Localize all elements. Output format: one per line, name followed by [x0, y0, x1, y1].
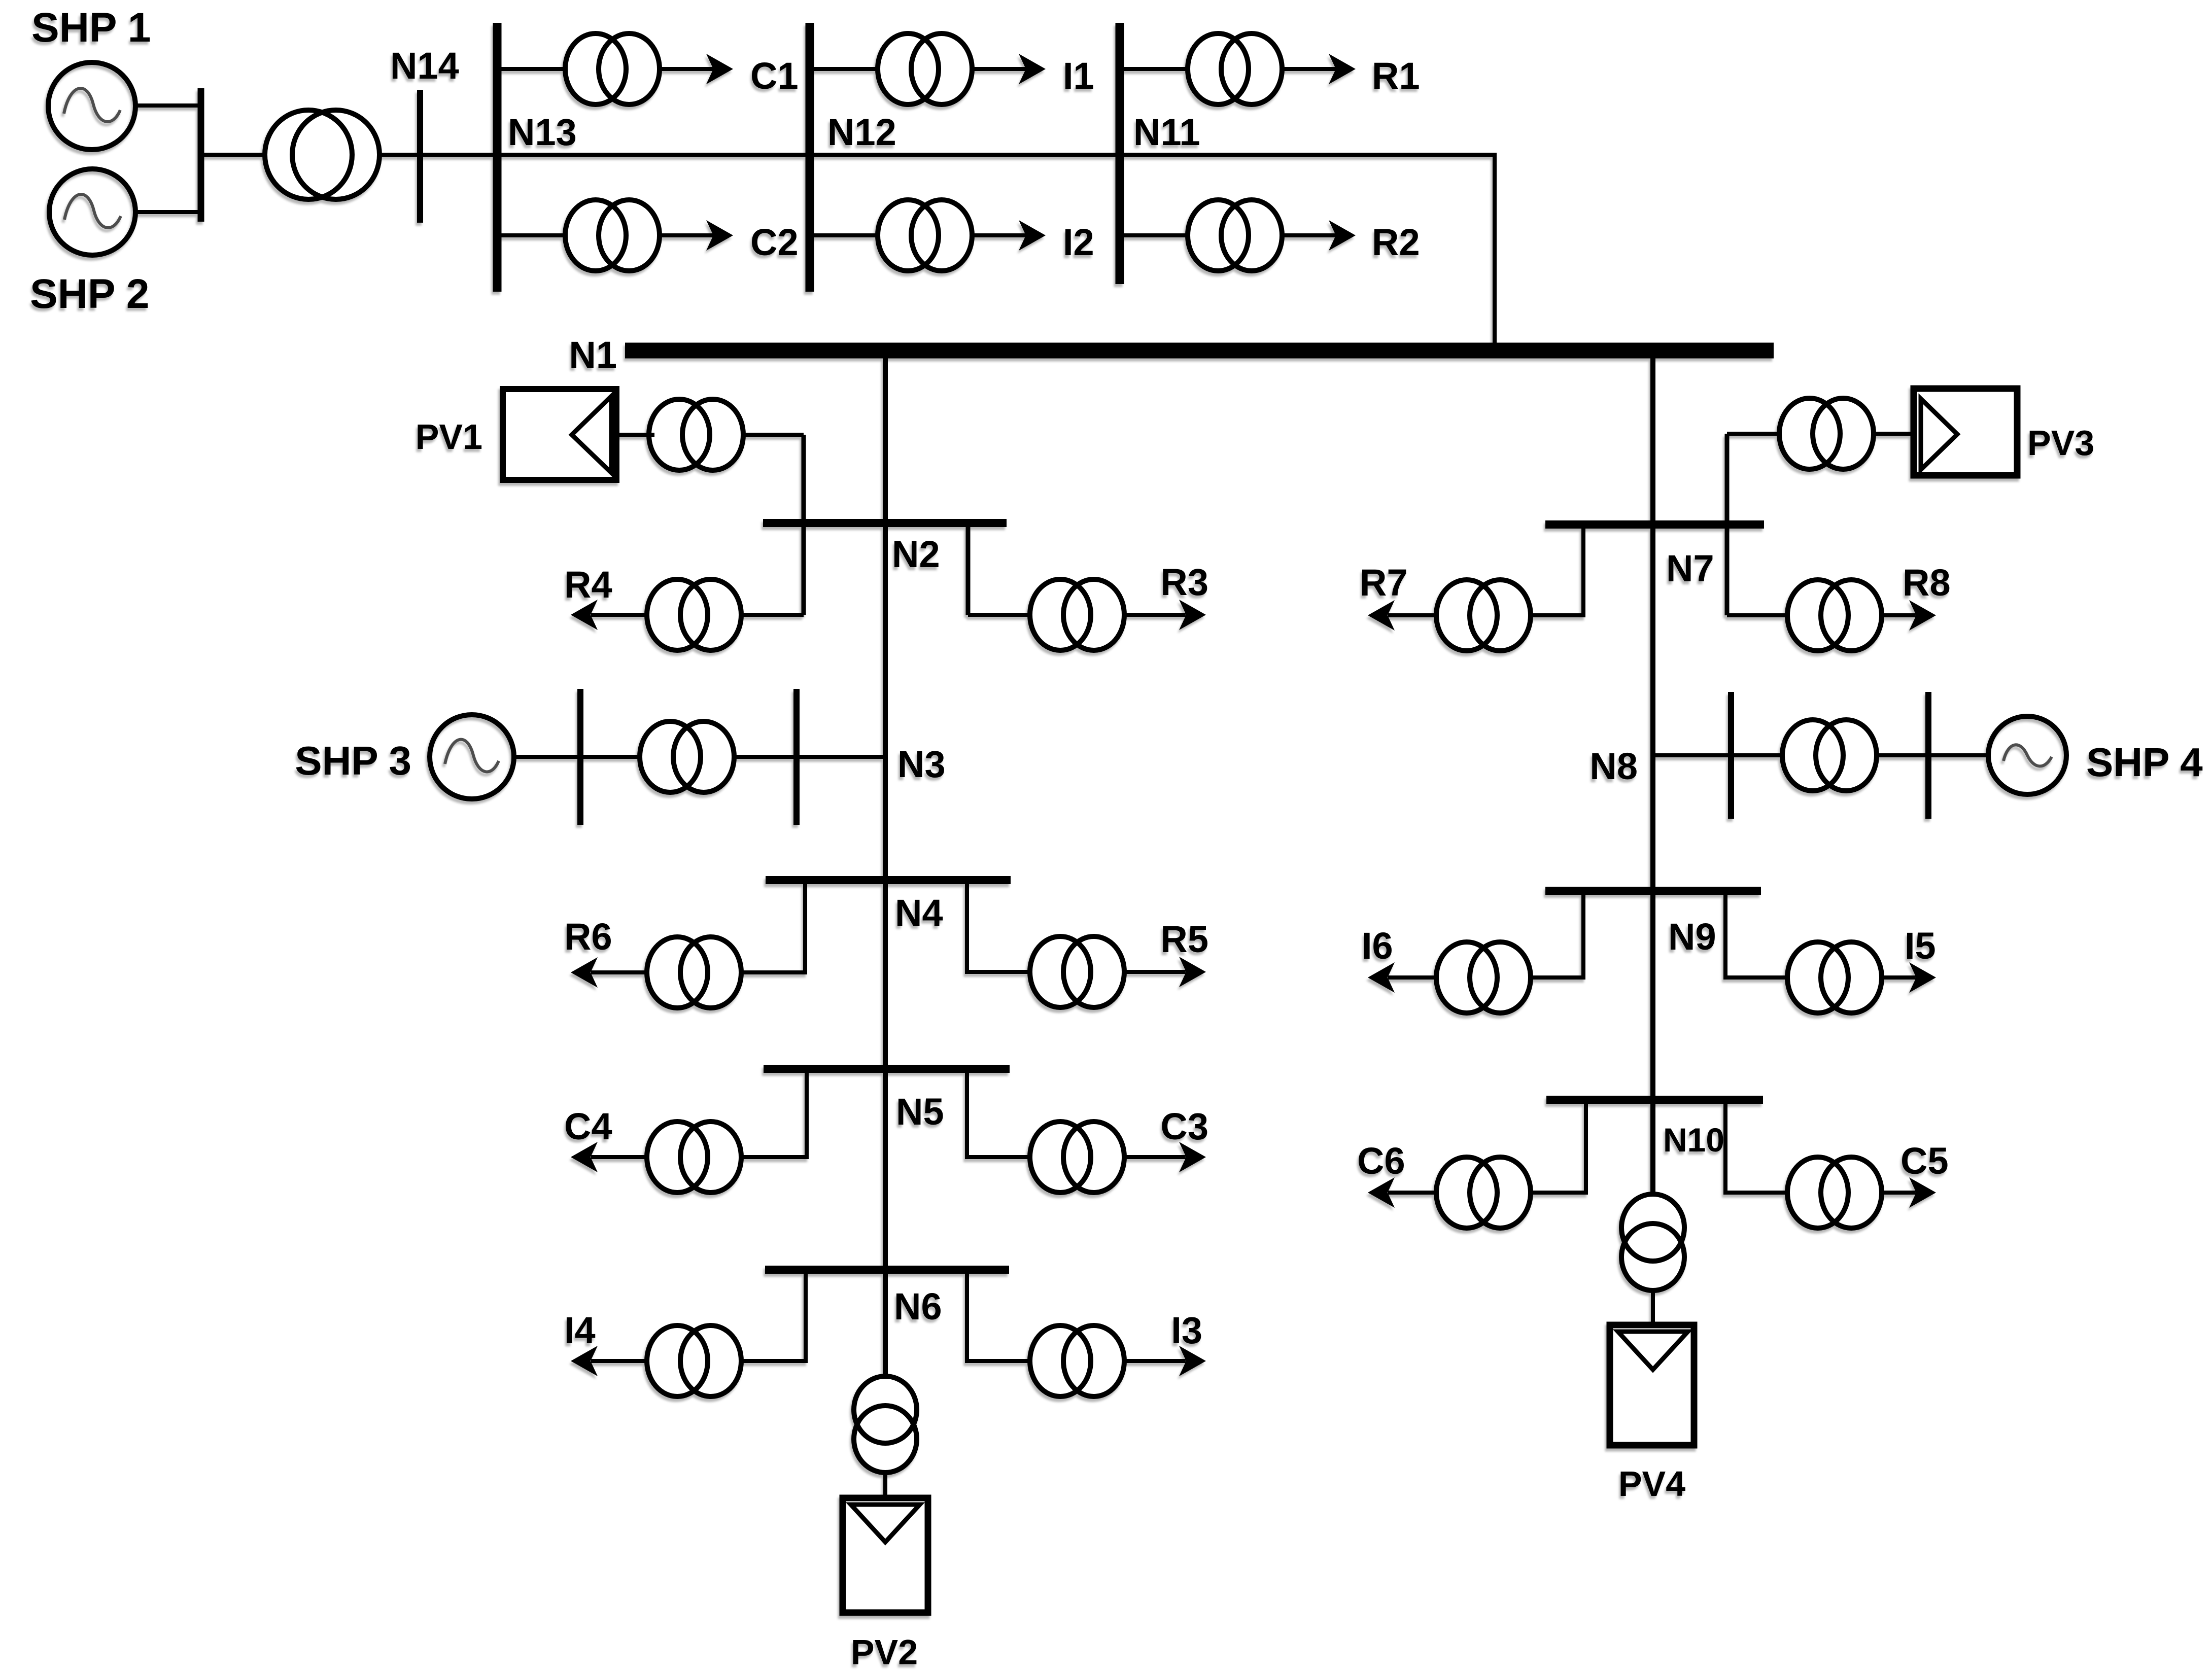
wire generator bus to main transformer: [201, 153, 269, 157]
SHP3 tick 1: [577, 689, 583, 825]
wire right feeder (N1 to N10 and PV4): [1650, 355, 1655, 1198]
transformer of load C5: [1787, 1157, 1882, 1228]
svg-text:C6: C6: [1357, 1140, 1405, 1182]
svg-text:PV1: PV1: [416, 417, 482, 457]
svg-text:R5: R5: [1160, 918, 1208, 960]
svg-text:R6: R6: [564, 916, 612, 958]
PV unit PV4: [1610, 1325, 1694, 1445]
svg-text:SHP 1: SHP 1: [31, 5, 151, 51]
svg-text:R7: R7: [1360, 562, 1408, 604]
wire PV3/R8 stub through bus N7: [1725, 434, 1730, 615]
wire arrow shaft C6: [1388, 1191, 1439, 1195]
wire C3 stub off bus N5: [967, 1069, 1035, 1157]
arrow to C2: [706, 220, 733, 251]
wire N11 to load R2: [1120, 233, 1338, 237]
svg-text:C5: C5: [1900, 1140, 1949, 1182]
arrow to I5: [1909, 962, 1936, 993]
arrow to C4: [571, 1142, 598, 1172]
bus N6: [765, 1266, 1009, 1274]
wire arrow shaft R3: [1122, 613, 1186, 617]
arrow to R2: [1329, 220, 1356, 251]
svg-text:R1: R1: [1372, 55, 1420, 97]
transformer of load C3: [1030, 1122, 1124, 1193]
wire arrow shaft R4: [591, 613, 649, 617]
wire stub to PV3 transformer: [1727, 432, 1786, 436]
wire PV2 transformer to panel: [883, 1471, 887, 1499]
svg-text:N11: N11: [1133, 111, 1200, 153]
wire SHP2 to generator bus: [135, 210, 201, 214]
wire arrow shaft I4: [591, 1359, 649, 1363]
wire arrow shaft C3: [1122, 1155, 1186, 1159]
PV unit PV2: [843, 1498, 928, 1613]
wire PV3 transformer to panel: [1871, 432, 1914, 436]
arrow to C3: [1179, 1142, 1206, 1172]
transformer of load R5: [1030, 936, 1124, 1007]
wire PV1 transformer to stub: [741, 433, 804, 437]
svg-text:N14: N14: [390, 45, 459, 87]
bus N1 (main thick busbar): [625, 343, 1774, 359]
bus N7: [1545, 520, 1764, 529]
transformer T-main (grid transformer): [265, 110, 379, 199]
transformer of load R6: [647, 937, 741, 1008]
arrow to C6: [1368, 1177, 1395, 1208]
wire arrow shaft I6: [1388, 975, 1439, 980]
transformer of load C4: [647, 1122, 741, 1193]
wire I6 stub off bus N9: [1528, 891, 1583, 977]
transformer of load R2: [1188, 200, 1282, 271]
wire I5 stub off bus N9: [1725, 891, 1792, 977]
bus N10: [1546, 1096, 1763, 1104]
wire node N8 to SHP4: [1653, 753, 1988, 757]
wire C6 stub off bus N10: [1528, 1100, 1586, 1193]
wire arrow shaft I3: [1122, 1359, 1186, 1363]
svg-text:R4: R4: [564, 564, 612, 606]
svg-text:PV4: PV4: [1618, 1464, 1685, 1504]
svg-text:N2: N2: [892, 533, 940, 575]
wire arrow shaft R8: [1879, 613, 1916, 617]
bus N12: [806, 23, 814, 292]
transformer of load I6: [1436, 942, 1531, 1013]
wire SHP3 to node N3: [514, 755, 885, 759]
arrow to I3: [1179, 1346, 1206, 1376]
arrow to R6: [571, 957, 598, 988]
transformer of load I4: [647, 1325, 741, 1396]
wire arrow shaft I5: [1879, 975, 1916, 980]
svg-text:I5: I5: [1905, 925, 1936, 967]
bus N5: [764, 1065, 1010, 1073]
arrow to R8: [1909, 600, 1936, 631]
wire R5 stub off bus N4: [967, 880, 1035, 972]
wire N13 to load C2: [497, 233, 715, 237]
svg-text:C2: C2: [750, 221, 799, 263]
wire R6 stub off bus N4: [739, 880, 805, 972]
wire N12 to load I2: [810, 233, 1028, 237]
wire R8 stub to transformer: [1727, 613, 1792, 617]
svg-text:R3: R3: [1160, 561, 1208, 603]
svg-text:R8: R8: [1903, 562, 1951, 604]
wire PV4 transformer to panel: [1651, 1289, 1655, 1327]
arrow to R5: [1179, 957, 1206, 987]
generator SHP4: [1988, 716, 2066, 794]
wire bus N13 to N12 to N11 and down to bus N1: [497, 155, 1495, 343]
wire I3 stub off bus N6: [967, 1270, 1035, 1361]
svg-text:C4: C4: [564, 1105, 612, 1147]
transformer of load R4: [647, 579, 741, 650]
transformer of load C1: [565, 33, 660, 104]
wire arrow shaft R6: [591, 970, 649, 974]
bus N9: [1545, 887, 1761, 895]
arrow to R1: [1329, 54, 1356, 84]
svg-text:N8: N8: [1589, 745, 1638, 787]
svg-text:I6: I6: [1362, 925, 1393, 967]
transformer of load R7: [1436, 580, 1531, 651]
wire R4 transformer to stub: [739, 613, 804, 617]
svg-text:PV3: PV3: [2027, 423, 2094, 463]
bus N4: [766, 876, 1011, 884]
SHP4 tick 2: [1925, 692, 1931, 819]
svg-text:N6: N6: [894, 1285, 942, 1328]
svg-text:I4: I4: [564, 1309, 596, 1351]
node N14 tick: [417, 90, 423, 223]
wire C5 stub off bus N10: [1725, 1100, 1792, 1193]
svg-text:N5: N5: [896, 1091, 944, 1133]
generator SHP1: [48, 62, 135, 150]
arrow to R7: [1368, 600, 1395, 631]
svg-text:N12: N12: [827, 111, 896, 153]
wire PV1 panel to transformer: [616, 433, 654, 437]
bus N2: [763, 519, 1007, 527]
transformer of load R1: [1188, 33, 1282, 104]
svg-text:N9: N9: [1668, 916, 1716, 958]
wire left feeder (N1 to N6 and PV2): [883, 355, 888, 1378]
wire R3 stub to transformer: [968, 613, 1035, 617]
wire PV1/R4 stub through bus N2: [802, 435, 806, 615]
wire arrow shaft R5: [1122, 970, 1186, 974]
wire main transformer to bus N13: [379, 153, 497, 157]
svg-text:I3: I3: [1171, 1309, 1202, 1351]
transformer of PV1: [649, 399, 743, 470]
svg-text:SHP 4: SHP 4: [2086, 740, 2203, 785]
transformer of PV2: [854, 1376, 917, 1473]
bus N11: [1116, 23, 1124, 284]
wire N13 to load C1: [497, 67, 715, 71]
svg-text:I1: I1: [1063, 55, 1094, 97]
arrow to R4: [571, 600, 598, 630]
wire arrow shaft C4: [591, 1155, 649, 1159]
transformer of load R8: [1787, 580, 1882, 651]
wire R3 stub off bus N2: [966, 523, 971, 615]
SHP3 tick 2: [793, 689, 800, 825]
wire arrow shaft C5: [1879, 1191, 1916, 1195]
svg-text:I2: I2: [1063, 221, 1094, 263]
generator SHP3: [430, 715, 514, 799]
svg-text:N13: N13: [508, 111, 577, 153]
wire N11 to load R1: [1120, 67, 1338, 71]
wire I4 stub off bus N6: [739, 1270, 806, 1361]
wire R7 stub off bus N7: [1528, 525, 1583, 615]
transformer of load I5: [1787, 942, 1882, 1013]
svg-text:C3: C3: [1160, 1105, 1208, 1147]
transformer of SHP4: [1782, 720, 1877, 791]
generator SHP2: [49, 169, 135, 255]
arrow to I4: [571, 1346, 598, 1376]
PV unit PV1: [503, 389, 616, 480]
svg-text:N4: N4: [895, 892, 943, 934]
arrow to C1: [706, 54, 733, 84]
arrow to C5: [1909, 1177, 1936, 1208]
wire SHP1 to generator bus: [135, 103, 201, 108]
svg-text:C1: C1: [750, 55, 799, 97]
bus N13: [493, 23, 502, 292]
transformer of load R3: [1030, 579, 1124, 650]
transformer of load I3: [1030, 1325, 1124, 1396]
transformer of load I1: [878, 33, 972, 104]
transformer of PV3: [1779, 398, 1874, 469]
svg-text:N10: N10: [1663, 1121, 1724, 1159]
arrow to I6: [1368, 962, 1395, 993]
svg-text:PV2: PV2: [851, 1632, 918, 1672]
arrow to I2: [1019, 220, 1046, 251]
transformer of load C6: [1436, 1157, 1531, 1228]
wire N12 to load I1: [810, 67, 1028, 71]
transformer of load C2: [565, 200, 660, 271]
transformer of SHP3: [640, 721, 734, 792]
svg-text:N7: N7: [1666, 547, 1714, 589]
generator bus bar: [198, 88, 204, 222]
SHP4 tick 1: [1728, 692, 1734, 819]
svg-text:SHP 2: SHP 2: [30, 271, 150, 317]
svg-text:R2: R2: [1372, 221, 1420, 263]
svg-text:N1: N1: [569, 334, 617, 376]
wire arrow shaft R7: [1388, 613, 1439, 617]
transformer of load I2: [878, 200, 972, 271]
svg-text:N3: N3: [897, 743, 946, 785]
PV unit PV3: [1914, 389, 2017, 475]
transformer of PV4: [1621, 1194, 1684, 1290]
svg-text:SHP 3: SHP 3: [295, 738, 411, 783]
arrow to R3: [1179, 600, 1206, 630]
wire C4 stub off bus N5: [739, 1069, 807, 1157]
arrow to I1: [1019, 54, 1046, 84]
